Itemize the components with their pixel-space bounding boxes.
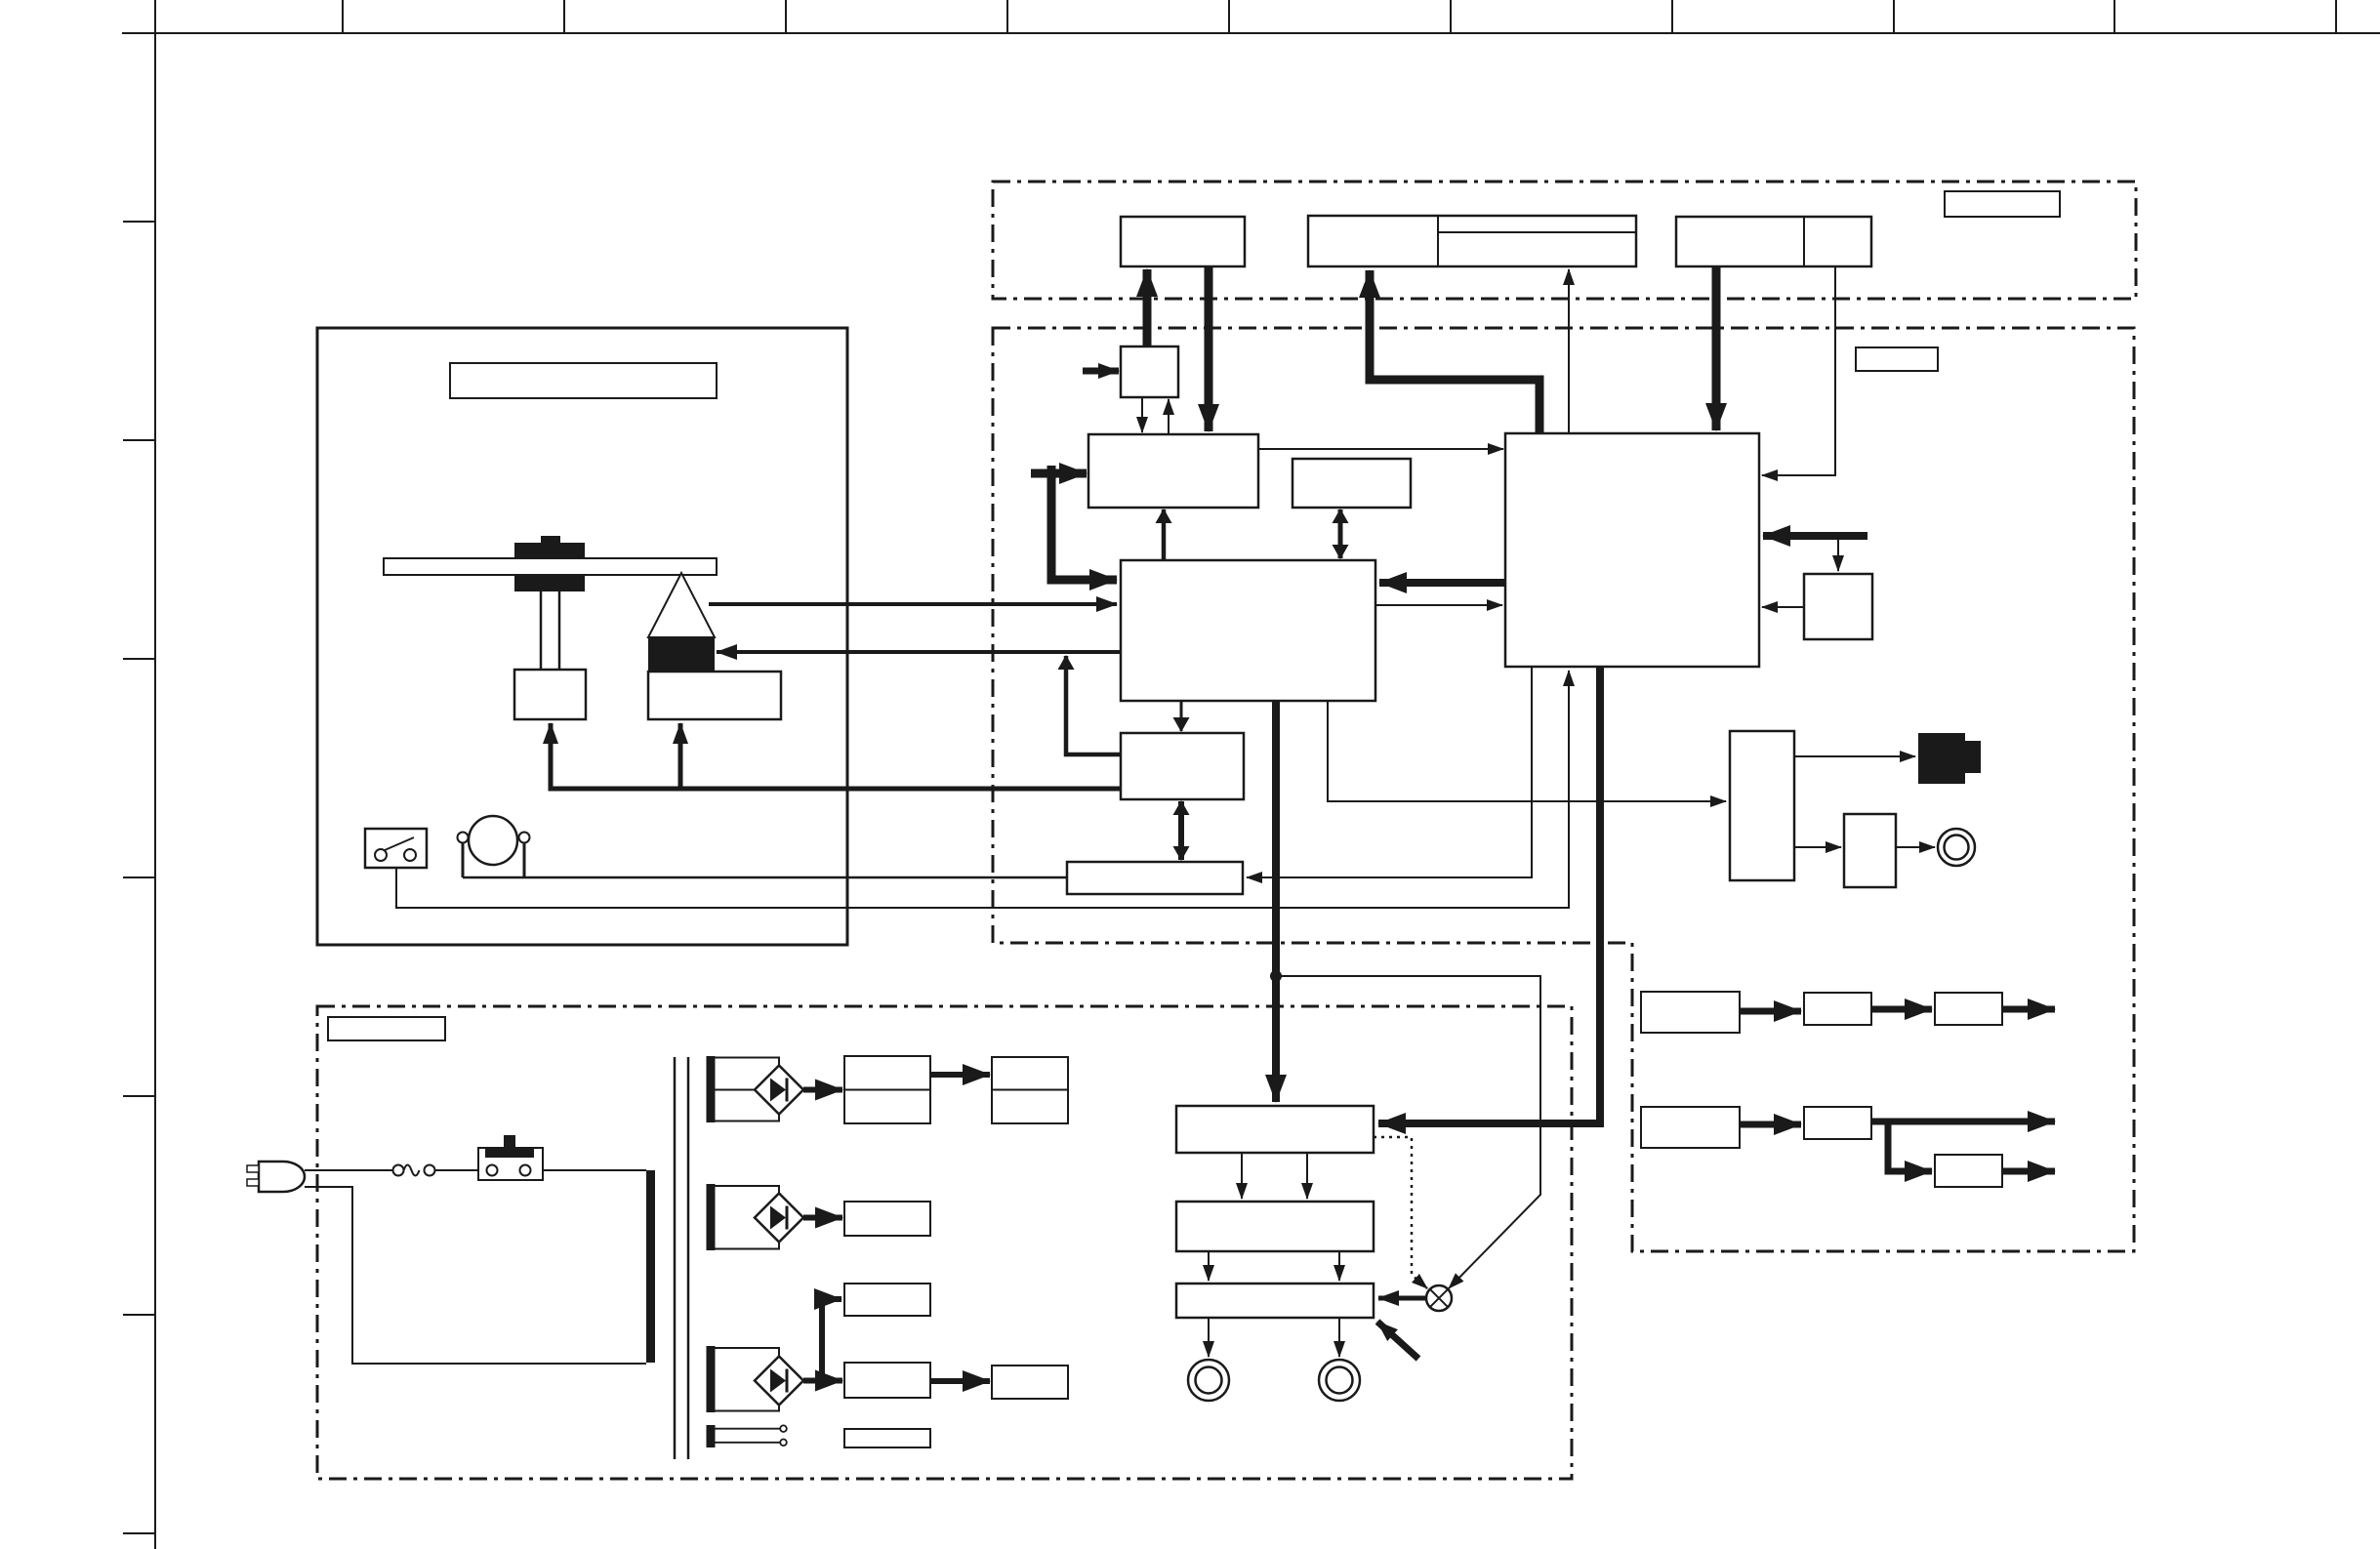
wire R to big IC (thin left arrow) (1762, 606, 1804, 608)
display section dash-dot border (993, 182, 2136, 299)
wire junction to mixer (thin bent diagonal) (1276, 976, 1540, 1288)
block D2 (memory) (1293, 459, 1411, 508)
top ruler tick 3 (785, 0, 787, 33)
wire E to G (down arrow) (1180, 701, 1183, 731)
wire E to big IC (thin right arrow) (1375, 604, 1502, 606)
block H (long thin) (1067, 862, 1243, 894)
left ruler tick 7 (123, 1532, 155, 1534)
leaf switch box (365, 829, 427, 868)
branch up to pickup base (678, 723, 683, 789)
wire C right cell to big IC right edge (1762, 266, 1835, 475)
bus E to J (thick down arrow) (1272, 701, 1280, 1102)
wire I to speaker (thin) (1794, 755, 1915, 757)
amp row1 block 1 (1641, 992, 1740, 1033)
wire K2 to L left (1208, 1251, 1210, 1281)
top ruler tick 10 (2335, 0, 2337, 33)
page border left rule (154, 0, 156, 1549)
top ruler tick 8 (1893, 0, 1895, 33)
mixer to L (med left arrow) (1378, 1296, 1426, 1301)
disc platter (384, 558, 717, 575)
regulator 3b (844, 1363, 930, 1398)
block L (line amp) (1176, 1284, 1374, 1318)
display block B (key matrix) (1308, 216, 1636, 266)
wire J to K2 right (1306, 1153, 1308, 1199)
amp row1 output arrow (2002, 1006, 2055, 1013)
rectifier 2 diode (770, 1206, 786, 1230)
top ruler tick 6 (1450, 0, 1452, 33)
wire power switch to big IC (long bent, up arrow) (396, 671, 1569, 908)
wire switch to transformer (543, 1169, 646, 1171)
block C divider (1803, 217, 1805, 266)
spindle shaft left (540, 591, 543, 670)
wire big IC to B right cell (thin up arrow) (1568, 269, 1570, 433)
motor terminal wire left (462, 842, 465, 877)
phones jack circle (1938, 829, 1975, 866)
wire F to D (thin down arrow) (1141, 397, 1143, 432)
secondary winding 4 (707, 1425, 716, 1447)
rectifier 2 diamond (755, 1194, 803, 1243)
block D (system control) (1088, 434, 1258, 508)
fuse element (404, 1165, 420, 1176)
block E (servo) (1121, 560, 1375, 701)
pickup triangle (648, 573, 715, 637)
spindle shaft right (558, 591, 561, 670)
dotted mute line J to mixer (1374, 1137, 1427, 1288)
rectifier 1 output arrow (803, 1087, 842, 1093)
regulator 2 (844, 1202, 930, 1236)
wire L to jack left (1208, 1318, 1210, 1357)
wire J to K2 left (1241, 1153, 1243, 1199)
wire K2 to L right (1338, 1251, 1340, 1281)
wire E to I (thin bent right arrow) (1328, 701, 1726, 801)
left ruler tick 1 (123, 221, 155, 223)
mechanism name plate (450, 363, 717, 398)
amp row1 block 2 (1804, 993, 1871, 1025)
wire E to D (med up arrow) (1162, 510, 1167, 560)
input stub to F (thick arrow) (1083, 368, 1119, 375)
winding 4 lead bottom (715, 1442, 780, 1444)
AC plug body (259, 1162, 305, 1192)
top ruler tick 4 (1006, 0, 1008, 33)
power section name plate (328, 1017, 445, 1040)
transformer core left (674, 1057, 677, 1459)
display block A (1121, 217, 1245, 266)
block K2 (filter) (1176, 1202, 1374, 1251)
wire D2 to E (double arrow) (1338, 510, 1343, 558)
bus big IC to B (thick bent, up arrow) (1370, 270, 1539, 433)
rectifier 1 diamond (755, 1066, 803, 1115)
motor terminal right (519, 833, 530, 843)
winding 4 lead top (715, 1428, 780, 1430)
top ruler tick 2 (563, 0, 565, 33)
pickup objective (black) (648, 637, 715, 672)
amp row2 block 1 (1641, 1107, 1740, 1148)
bus big IC to J (thick bent left arrow) (1378, 667, 1600, 1123)
wire G to return line (med up arrow) (1066, 656, 1121, 754)
big IC block (1505, 433, 1759, 667)
rectifier 2 output arrow (803, 1215, 842, 1221)
transformer primary winding (646, 1170, 655, 1363)
switch contact left (375, 849, 387, 861)
AC line bottom wire (305, 1187, 646, 1364)
regulator 1b (992, 1057, 1068, 1123)
left ruler tick 4 (123, 876, 155, 878)
regulator 4 (844, 1429, 930, 1447)
top ruler tick 1 (342, 0, 344, 33)
disc clamp top (514, 543, 585, 558)
top ruler tick 7 (1671, 0, 1673, 33)
left ruler tick 3 (123, 658, 155, 660)
block F (1121, 346, 1178, 397)
top ruler tick 9 (2113, 0, 2115, 33)
wire D to F (thin up arrow) (1168, 399, 1169, 434)
rectifier 1 diode (770, 1079, 786, 1102)
regulator 3c (992, 1366, 1068, 1399)
rectifier 3 output arrow (803, 1378, 842, 1384)
winding 4 terminal top (780, 1425, 787, 1432)
top ruler tick 5 (1228, 0, 1230, 33)
wire D to big IC (thin) (1258, 448, 1503, 450)
block G (driver) (1121, 733, 1244, 799)
fuse left circle (393, 1165, 404, 1176)
winding 3 taps (715, 1348, 779, 1411)
amp row1 arrow 2 (1871, 1006, 1932, 1013)
clamp knob (541, 536, 560, 543)
wire fuse to switch (435, 1169, 478, 1171)
switch contact right (520, 1165, 531, 1176)
wire A to D (thick down) (1205, 266, 1213, 431)
fuse right circle (425, 1165, 435, 1176)
amp row1 block 3 (1935, 993, 2002, 1025)
rectifier 3 diode (770, 1369, 786, 1393)
AC plug prong bottom (247, 1179, 259, 1186)
switch lever (385, 837, 414, 850)
loading motor (469, 816, 517, 865)
amp row2 output arrow (1871, 1119, 2055, 1125)
volume control arrow (1377, 1322, 1418, 1359)
disc clamp bottom (514, 575, 585, 591)
AC line top wire (305, 1169, 393, 1171)
power section dash-dot border (317, 1006, 1572, 1479)
wire pickup to E (med right arrow) (709, 602, 1117, 606)
secondary winding 1 (707, 1056, 716, 1122)
block K (phones amp) (1844, 814, 1896, 887)
amp row1 arrow 1 (1740, 1008, 1801, 1015)
bus stub into big IC right (thick arrow) (1763, 532, 1867, 540)
rectifier 3 diamond (755, 1357, 803, 1406)
switch contact left (487, 1165, 498, 1176)
left ruler tick 6 (123, 1314, 155, 1316)
bus stub into D (thick) (1031, 469, 1087, 478)
amp row2 arrow 1 (1740, 1121, 1801, 1128)
speaker icon (1918, 733, 1981, 784)
switch button bar (485, 1148, 534, 1158)
main board dash-dot border (993, 328, 2134, 1251)
muting mixer circle (1426, 1285, 1452, 1311)
pickup base box (648, 672, 781, 719)
main board name plate (1856, 347, 1938, 371)
motor terminal wire right (523, 842, 526, 877)
bus C to big IC (thick down arrow) (1712, 266, 1721, 430)
switch button stem (504, 1135, 515, 1148)
wire F to A (thick up arrow) (1143, 269, 1152, 397)
amp row2 block 2 (1804, 1107, 1871, 1139)
power switch box (478, 1148, 543, 1180)
motor terminal left (458, 833, 469, 843)
left ruler tick 2 (123, 439, 155, 441)
junction dot (1270, 970, 1282, 982)
amp row2 block 3 (1935, 1155, 2002, 1187)
bus riser D to E (1051, 466, 1117, 580)
switch contact right (404, 849, 416, 861)
winding 4 terminal bottom (780, 1440, 787, 1447)
mechanism chassis box (317, 328, 847, 945)
wire big IC to H (thin bent left arrow) (1247, 667, 1532, 877)
amp row2 branch down (1888, 1124, 1932, 1171)
block B divider (1437, 216, 1439, 266)
page border top rule (122, 32, 2380, 34)
left ruler tick 5 (123, 1095, 155, 1097)
winding 2 taps (715, 1186, 779, 1249)
amp row2 output arrow 2 (2002, 1168, 2055, 1175)
block R (right of big IC) (1804, 574, 1872, 639)
bus big IC to E (thick left arrow) (1379, 579, 1505, 587)
display section name plate (1945, 191, 2060, 217)
branch riser to regulator 3a (822, 1299, 841, 1381)
wire G to spindle motor (thick bent up arrow) (551, 723, 1121, 789)
spindle motor box (514, 670, 586, 719)
regulator 1 (844, 1056, 930, 1123)
drop wire to block R (1837, 540, 1839, 571)
block I (output driver) (1730, 731, 1794, 880)
secondary winding 2 (707, 1184, 716, 1250)
regulator 3b output arrow (930, 1378, 990, 1384)
wire K to phones (thin) (1896, 846, 1935, 848)
output jack right (1319, 1360, 1360, 1401)
display block C (1676, 217, 1871, 266)
transformer core right (687, 1057, 690, 1459)
regulator 3a (844, 1284, 930, 1316)
output jack left (1188, 1360, 1229, 1401)
wire L to jack right (1338, 1318, 1340, 1357)
wire G to H (double arrow) (1178, 801, 1184, 860)
winding 1 taps (715, 1058, 779, 1121)
secondary winding 3 (707, 1346, 716, 1412)
wire I to K (thin) (1794, 846, 1841, 848)
AC plug prong top (247, 1165, 259, 1172)
block B right cell divider (1438, 231, 1636, 233)
wire E to pickup (med left arrow) (717, 650, 1121, 654)
regulator 1 output arrow (930, 1072, 990, 1078)
wire motor to H left (463, 876, 1067, 879)
block J (DAC) (1176, 1106, 1374, 1153)
